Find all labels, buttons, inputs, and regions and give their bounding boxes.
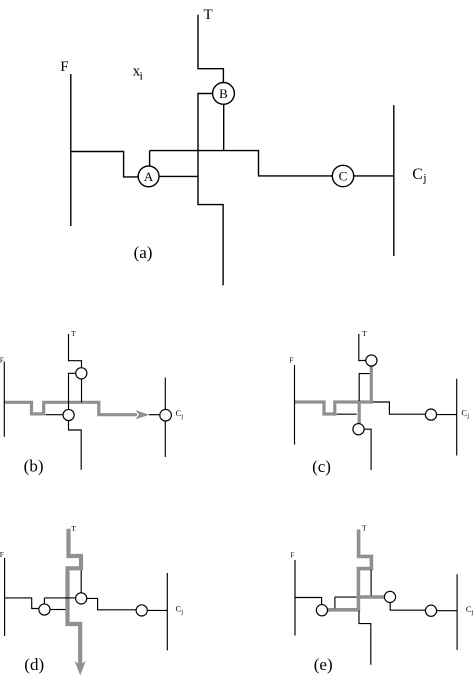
svg-text:T: T: [362, 524, 367, 533]
svg-text:F: F: [0, 356, 4, 365]
svg-text:T: T: [71, 524, 76, 533]
svg-text:C: C: [339, 168, 348, 183]
svg-text:T: T: [71, 329, 76, 338]
svg-text:F: F: [60, 59, 68, 75]
svg-text:A: A: [144, 169, 154, 184]
svg-text:C: C: [412, 166, 422, 183]
svg-text:F: F: [290, 551, 294, 560]
svg-text:T: T: [362, 329, 367, 338]
svg-text:j: j: [422, 170, 426, 184]
svg-text:F: F: [0, 550, 4, 559]
svg-text:j: j: [466, 413, 469, 420]
svg-text:(c): (c): [312, 457, 331, 476]
svg-text:B: B: [219, 86, 228, 101]
svg-text:(a): (a): [134, 243, 153, 262]
svg-text:i: i: [140, 69, 144, 83]
svg-text:F: F: [289, 356, 293, 365]
svg-text:(d): (d): [24, 655, 44, 674]
svg-text:j: j: [180, 609, 183, 616]
svg-text:j: j: [180, 413, 183, 420]
svg-text:T: T: [204, 7, 213, 23]
svg-text:(e): (e): [314, 655, 333, 674]
svg-text:(b): (b): [24, 457, 44, 476]
